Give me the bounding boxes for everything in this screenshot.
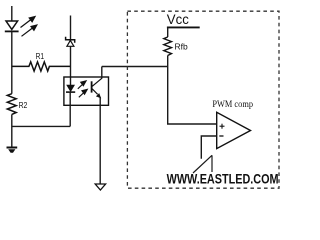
wire collector to Rfb junction xyxy=(102,66,168,68)
optocoupler U1 box xyxy=(64,77,109,105)
sawtooth ramp xyxy=(193,155,212,173)
dashed IC boundary box xyxy=(127,11,279,188)
wire VCC to Rfb xyxy=(167,28,169,37)
wire collector up xyxy=(101,67,103,79)
wire LED cathode down xyxy=(69,92,71,126)
wire emitter down xyxy=(99,97,101,184)
wire minus input xyxy=(201,136,216,159)
wire bottom horizontal to left rail xyxy=(12,125,70,127)
resistor R2 xyxy=(7,94,16,115)
resistor R1 xyxy=(12,62,71,71)
wire zener to optocoupler xyxy=(70,46,72,86)
phototransistor collector lead xyxy=(92,78,102,86)
svg-text:PWM comp: PWM comp xyxy=(212,99,253,109)
optocoupler coupling arrow 2 xyxy=(79,89,89,98)
optocoupler LED xyxy=(66,85,75,92)
svg-text:R2: R2 xyxy=(19,101,28,110)
light arrow 1 xyxy=(21,16,37,28)
phototransistor Q1 base bar xyxy=(91,81,93,92)
ground GND1 xyxy=(7,148,18,153)
photodiode D1 cathode bar xyxy=(5,30,19,32)
phototransistor emitter lead xyxy=(92,89,101,99)
minus input mark xyxy=(219,135,223,137)
svg-text:WWW.EASTLED.COM: WWW.EASTLED.COM xyxy=(167,172,279,187)
svg-text:Rfb: Rfb xyxy=(175,42,189,51)
optocoupler coupling arrow 1 xyxy=(78,80,87,89)
plus input mark xyxy=(220,124,225,129)
wire Rfb down to plus-input elbow xyxy=(168,56,217,125)
ground GND2 open triangle xyxy=(95,184,105,190)
sawtooth drop xyxy=(211,155,213,172)
photodiode D1 triangle xyxy=(6,21,18,29)
svg-text:R1: R1 xyxy=(36,51,45,61)
light arrow 2 xyxy=(22,24,39,36)
wire left rail lower xyxy=(11,114,13,147)
wire left rail mid xyxy=(11,31,13,93)
svg-text:Vcc: Vcc xyxy=(167,11,189,27)
wire zener rail top xyxy=(70,16,72,40)
op-amp comparator U2 xyxy=(217,112,251,148)
VCC power bar xyxy=(167,26,200,28)
wire left rail top xyxy=(11,6,13,21)
zener diode Z1 xyxy=(66,37,75,47)
resistor Rfb xyxy=(164,37,172,56)
